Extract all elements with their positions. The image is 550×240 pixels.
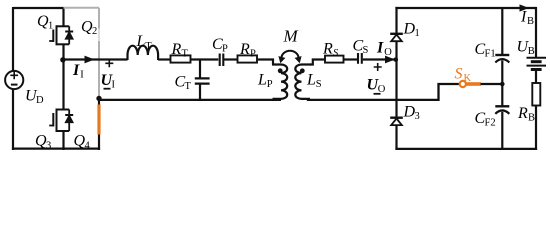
wire: right rail lower: [535, 106, 537, 151]
wire: diode rail middle: [395, 41, 397, 117]
svg-text:3: 3: [415, 111, 420, 122]
wire: to rectifier with IO arrow: [363, 58, 396, 60]
svg-text:I: I: [376, 40, 384, 57]
inductor LP (primary winding): [272, 65, 287, 99]
wire: step down to LP: [257, 60, 273, 65]
diode D3: [390, 116, 403, 118]
svg-text:T: T: [145, 41, 152, 52]
transistor Q1: [49, 7, 73, 60]
svg-text:D: D: [36, 95, 44, 106]
svg-text:R: R: [517, 105, 528, 122]
arrow II: [85, 56, 95, 64]
capacitor CT (shunt): [199, 60, 201, 78]
svg-text:B: B: [528, 113, 535, 124]
battery UB: [527, 57, 547, 59]
svg-text:I: I: [520, 9, 527, 26]
svg-text:R: R: [171, 41, 182, 58]
wire: right rail upper: [535, 7, 537, 57]
wire: [191, 58, 219, 60]
resistor RS: [325, 56, 344, 63]
svg-text:I: I: [112, 79, 116, 90]
diode D1: [390, 33, 403, 35]
wire: CF branch upper: [501, 8, 503, 54]
wire: switch to capacitor midpoint: [481, 83, 503, 85]
svg-text:T: T: [185, 81, 192, 92]
wire: LS top step up: [310, 60, 325, 65]
wire: grey top rail segment (Q2 leg, inactive): [64, 7, 100, 9]
wire: left rail lower: [12, 89, 14, 151]
wire: bottom rail left: [12, 148, 100, 150]
svg-text:S: S: [333, 48, 339, 59]
svg-text:K: K: [464, 73, 472, 84]
transistor Q2 (grey inactive leg): [98, 8, 100, 29]
svg-text:F2: F2: [485, 117, 496, 128]
wire: battery to RB: [535, 71, 537, 84]
wire: CF branch lower: [501, 112, 503, 150]
svg-text:3: 3: [46, 140, 51, 151]
svg-text:2: 2: [92, 26, 97, 37]
svg-text:S: S: [363, 45, 369, 56]
source UD circle: [5, 71, 23, 89]
svg-text:M: M: [283, 27, 299, 46]
capacitor CS: [358, 53, 362, 64]
svg-text:1: 1: [415, 28, 420, 39]
svg-text:P: P: [267, 79, 273, 90]
capacitor CP (series): [220, 54, 224, 67]
svg-text:B: B: [527, 16, 534, 27]
svg-text:S: S: [455, 66, 463, 83]
svg-text:I: I: [80, 70, 84, 81]
mutual inductance M coupling arc: [282, 51, 299, 58]
wire: rectifier top rail: [395, 7, 536, 9]
capacitor CF1 (polarized): [495, 54, 509, 56]
switch SK (orange): [460, 81, 466, 87]
svg-text:F1: F1: [485, 49, 496, 60]
svg-text:R: R: [322, 41, 333, 58]
wire: left rail upper: [12, 7, 14, 72]
resistor RP: [238, 55, 258, 62]
label - (output): [374, 93, 381, 95]
wire: [344, 58, 358, 60]
label - (input): [104, 88, 111, 90]
wire: rectifier bottom rail: [395, 148, 537, 150]
label + (input): [105, 59, 113, 67]
wire: diode rail bottom: [395, 125, 397, 150]
wire: II wire from bridge midpoint to tank: [63, 58, 128, 60]
node: LP polarity dot: [278, 68, 283, 73]
arrow IB: [520, 4, 530, 11]
svg-text:I: I: [72, 62, 80, 79]
node: rectifier input junction: [394, 57, 399, 62]
node: capacitor midpoint junction: [500, 82, 505, 87]
resistor RB: [532, 83, 540, 106]
node B: bridge right midpoint junction: [96, 96, 101, 101]
capacitor CF2 (polarized): [495, 105, 509, 107]
svg-text:O: O: [384, 47, 392, 58]
transistor Q3: [49, 60, 73, 150]
node: LS polarity dot: [300, 68, 305, 73]
svg-text:B: B: [528, 46, 535, 57]
svg-text:L: L: [257, 72, 267, 89]
svg-text:R: R: [239, 41, 250, 58]
svg-text:P: P: [250, 49, 256, 60]
svg-text:L: L: [136, 33, 146, 50]
wire: top rail left (black): [13, 7, 64, 9]
wire: secondary bottom to switch: [308, 84, 460, 100]
svg-text:4: 4: [85, 140, 91, 151]
arrow IO: [385, 56, 395, 64]
wire: CF midpoint: [501, 61, 503, 106]
wire: rectifier diode rail: [395, 7, 397, 34]
svg-text:P: P: [222, 44, 228, 55]
svg-text:L: L: [306, 72, 316, 89]
node A: bridge left midpoint junction: [60, 57, 65, 62]
label + (output): [374, 63, 382, 71]
svg-text:S: S: [316, 79, 322, 90]
transistor Q4 (orange highlighted segment): [98, 98, 100, 104]
wire: tank bottom rail: [99, 99, 281, 101]
resistor RT: [171, 55, 191, 62]
inductor LS (secondary winding): [295, 65, 311, 99]
svg-text:1: 1: [48, 20, 53, 31]
svg-text:T: T: [182, 49, 189, 60]
wire: [158, 58, 171, 60]
inductor LT: [128, 46, 159, 60]
wire: [224, 58, 238, 60]
